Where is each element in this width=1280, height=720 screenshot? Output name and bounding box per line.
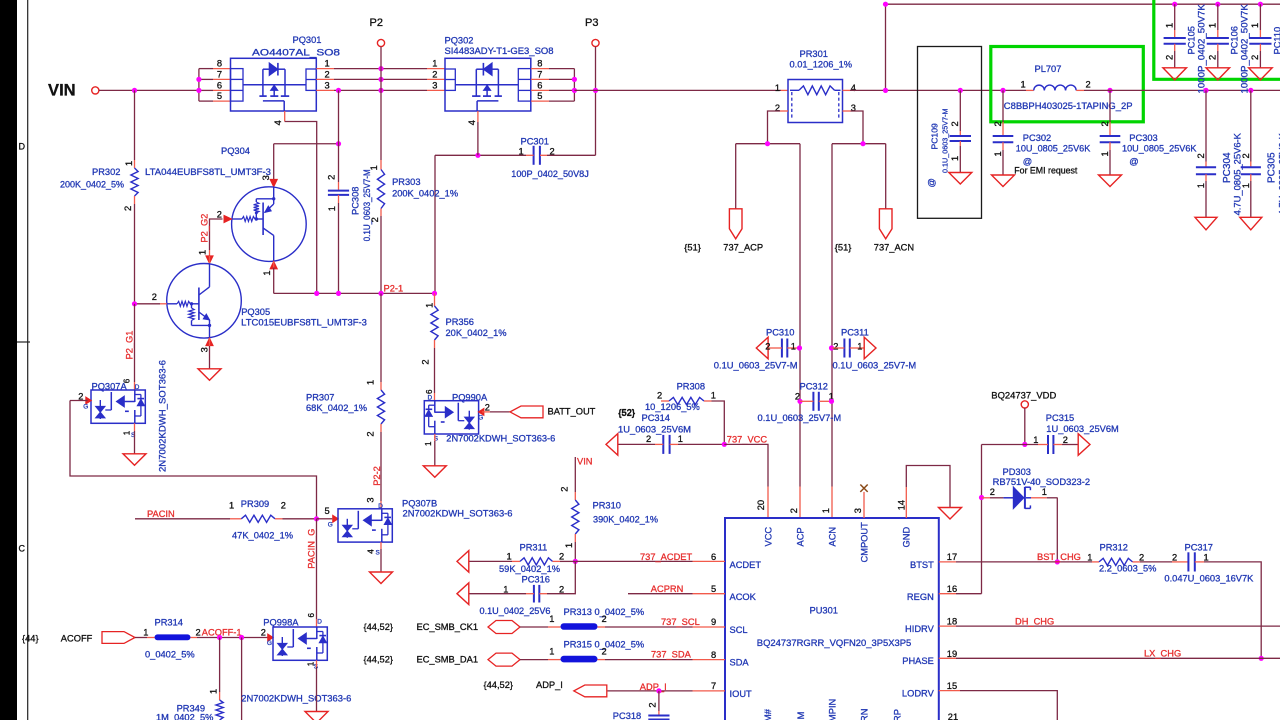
pin number PC105.1 <box>1165 23 1175 28</box>
svg-text:14: 14 <box>896 500 906 510</box>
svg-text:P2-1: P2-1 <box>384 283 404 293</box>
svg-text:2: 2 <box>990 487 995 497</box>
svg-text:1: 1 <box>424 441 433 446</box>
pin number PR313.2 <box>602 614 607 624</box>
capacitor PC317 value <box>1164 574 1254 584</box>
pin name HIDRV <box>905 624 935 634</box>
zone label C <box>19 544 26 554</box>
wire PC302 bottom <box>1002 142 1004 175</box>
svg-text:1: 1 <box>564 543 574 548</box>
wire PR307 bottom P2-2 <box>380 424 382 509</box>
pin label PQ307A.D <box>135 384 140 391</box>
svg-text:10_1206_5%: 10_1206_5% <box>645 402 700 412</box>
svg-text:IM: IM <box>796 712 806 720</box>
junction P2 row3 <box>378 88 383 93</box>
wire ACOFF <box>135 637 155 639</box>
svg-text:1: 1 <box>1021 79 1026 89</box>
wire PACIN_G down <box>316 519 318 627</box>
capacitor PC105 value <box>1197 3 1207 93</box>
junction ACP bracket <box>765 141 770 146</box>
wire P2-1 row <box>274 292 435 294</box>
svg-text:G: G <box>328 521 333 528</box>
pin name bottom MPIN <box>828 699 838 720</box>
transistor PQ305 label <box>241 307 270 317</box>
svg-text:2: 2 <box>559 585 564 595</box>
svg-text:ACDET: ACDET <box>730 560 762 570</box>
pin number PC308.2 <box>327 175 337 180</box>
wire REGN riser <box>956 445 982 594</box>
pin number PQ301.5 <box>217 91 222 101</box>
pin number PU301.8 <box>711 650 716 660</box>
svg-text:BQ24737_VDD: BQ24737_VDD <box>991 390 1056 400</box>
pin number PC314.2 <box>646 434 651 444</box>
svg-text:19: 19 <box>947 649 957 659</box>
resistor PR301 label <box>800 49 828 59</box>
svg-text:0.047U_0603_16V7K: 0.047U_0603_16V7K <box>1164 574 1254 584</box>
pin PQ304.3 stub <box>270 179 277 187</box>
svg-text:PR309: PR309 <box>241 499 269 509</box>
svg-text:PHASE: PHASE <box>902 656 934 666</box>
pin number PU301.2 <box>789 508 799 513</box>
svg-text:1: 1 <box>549 614 554 624</box>
pin number PQ990A.1 <box>424 441 433 446</box>
resistor PR312 label <box>1100 542 1128 552</box>
transistor PQ990A (2N7002KDWH) <box>424 401 478 434</box>
capacitor PC312 <box>813 392 818 411</box>
wire PC105 column <box>1174 4 1176 38</box>
junction ADP_I <box>656 688 661 693</box>
pin number PR356.1 <box>425 303 435 308</box>
resistor PR313 (0 ohm) <box>561 623 598 630</box>
capacitor PC301 label <box>521 136 549 146</box>
pin number PD303.1 <box>1042 487 1047 497</box>
svg-text:HIDRV: HIDRV <box>905 624 935 634</box>
svg-text:2: 2 <box>647 702 657 707</box>
svg-text:DH_CHG: DH_CHG <box>1015 617 1054 627</box>
pin number PU301.5 <box>711 584 716 594</box>
resistor PR312 value <box>1099 563 1156 573</box>
svg-text:7: 7 <box>711 681 716 691</box>
svg-text:LX_CHG: LX_CHG <box>1144 648 1181 658</box>
net label 737_ACN <box>874 242 914 252</box>
svg-text:17: 17 <box>947 552 957 562</box>
svg-text:6: 6 <box>123 378 132 383</box>
pin PQ998A gate arrow <box>268 634 274 641</box>
port EC_SMB_DA1 ref <box>364 654 393 664</box>
junction PC304 top <box>1203 88 1208 93</box>
pin number PR307.1 <box>366 380 376 385</box>
pin number PR315.1 <box>549 647 554 657</box>
svg-text:{51}: {51} <box>835 242 852 252</box>
wire PC315 row <box>982 444 1078 446</box>
capacitor PC301 <box>534 146 540 165</box>
svg-text:7: 7 <box>537 69 542 79</box>
pin number PL707.1 <box>1021 79 1026 89</box>
svg-text:PC310: PC310 <box>766 327 794 337</box>
svg-text:PR314: PR314 <box>155 617 183 627</box>
svg-text:1: 1 <box>425 303 435 308</box>
svg-text:1: 1 <box>229 501 234 511</box>
svg-text:2: 2 <box>217 209 222 219</box>
wire PC301 row <box>435 154 596 156</box>
transistor PQ301 (AO4407AL_SO8) <box>231 58 317 111</box>
pin number PU301.15 <box>947 681 957 691</box>
port ADP_I ref <box>484 680 513 690</box>
net label 737_VCC <box>727 434 768 444</box>
capacitor PC314 label <box>642 413 670 423</box>
resistor PR301 (0.01 1206) <box>788 80 843 123</box>
wire P2 vertical <box>380 47 382 170</box>
pin number PC106.2 <box>1208 55 1218 60</box>
wire ACN pentagon drop <box>885 144 887 209</box>
svg-text:2: 2 <box>152 292 157 302</box>
svg-text:P3: P3 <box>585 17 598 29</box>
wire PC316 row <box>470 561 576 593</box>
ground PC303 <box>1099 175 1122 187</box>
capacitor PC109 <box>950 136 971 141</box>
pin name bottom RN <box>860 709 870 720</box>
pin number PR303.1 <box>369 165 379 170</box>
svg-text:LTC015EUBFS8TL_UMT3F-3: LTC015EUBFS8TL_UMT3F-3 <box>241 317 367 327</box>
wire drain row 3 <box>316 89 445 91</box>
svg-text:6: 6 <box>307 613 316 618</box>
svg-text:1: 1 <box>1087 552 1092 562</box>
pin number PR312.2 <box>1139 552 1144 562</box>
svg-text:1: 1 <box>197 250 207 255</box>
svg-text:1000P_0402_50V7K: 1000P_0402_50V7K <box>1197 3 1207 93</box>
pin number PC317.2 <box>1172 552 1177 562</box>
pin number PC312.2 <box>795 391 800 401</box>
pin ACDET stub <box>693 560 726 562</box>
svg-text:MPIN: MPIN <box>828 699 838 720</box>
svg-text:2: 2 <box>281 501 286 511</box>
pin number PQ990A.6 <box>425 389 434 394</box>
pin number PC312.1 <box>829 391 834 401</box>
ground PC304 <box>1195 217 1217 230</box>
pin number PC109.1 <box>950 156 960 161</box>
svg-text:PC303: PC303 <box>1129 133 1157 143</box>
junction top rail corner <box>883 2 888 7</box>
wire ACP pentagon drop <box>735 144 737 209</box>
transistor PQ307A value <box>158 360 168 472</box>
pin name ACN <box>828 527 838 547</box>
pin number PC110.1 <box>1250 23 1260 28</box>
svg-text:1M_0402_5%: 1M_0402_5% <box>156 713 213 720</box>
pin PR301.2 wire <box>768 111 789 144</box>
svg-text:16: 16 <box>947 584 957 594</box>
pin number PQ301.3 <box>325 80 330 90</box>
transistor PQ304 value <box>145 167 271 177</box>
capacitor PC314 value <box>618 424 691 434</box>
wire VDD drop <box>1024 408 1026 444</box>
svg-text:PC109: PC109 <box>930 123 940 149</box>
net label ACOFF-1 <box>202 628 242 638</box>
pin number PC109.2 <box>950 121 960 126</box>
page border left bar <box>0 0 30 720</box>
svg-text:8: 8 <box>217 59 222 69</box>
junction P3 main row <box>593 88 598 93</box>
capacitor PC105 label <box>1187 26 1197 54</box>
svg-text:3: 3 <box>199 347 209 352</box>
svg-text:PR356: PR356 <box>446 317 474 327</box>
svg-text:2: 2 <box>602 614 607 624</box>
svg-text:2: 2 <box>602 647 607 657</box>
svg-text:2: 2 <box>196 627 201 637</box>
ground PC302 <box>992 175 1015 187</box>
pin number PR310.2 <box>559 487 569 492</box>
pin PHASE stub <box>939 657 956 659</box>
pin REGN stub <box>939 593 956 595</box>
svg-text:2: 2 <box>420 359 430 364</box>
svg-text:2: 2 <box>1086 79 1091 89</box>
svg-text:2N7002KDWH_SOT363-6: 2N7002KDWH_SOT363-6 <box>403 509 513 519</box>
svg-text:737_ACDET: 737_ACDET <box>640 552 693 562</box>
resistor PR309 value <box>232 530 293 540</box>
pin name bottom RP <box>892 709 902 720</box>
wire PQ990A gate <box>482 411 510 413</box>
junction ACN bracket <box>860 141 865 146</box>
svg-text:CMPOUT: CMPOUT <box>860 522 870 563</box>
capacitor PC316 <box>534 585 539 603</box>
pin number PQ305.2 <box>152 292 157 302</box>
pin number PU301.6 <box>711 552 716 562</box>
svg-text:4: 4 <box>366 549 375 554</box>
wire P3 vertical <box>595 47 597 156</box>
svg-text:1: 1 <box>143 627 148 637</box>
net label 737_SCL <box>661 617 700 627</box>
diode PD303 label <box>1003 467 1031 477</box>
svg-text:VIN: VIN <box>48 80 76 99</box>
transistor PQ307B label <box>402 498 437 508</box>
pin name ACOK <box>730 592 757 602</box>
wire PC110 column <box>1259 4 1261 38</box>
svg-text:0.1U_0402_25V6: 0.1U_0402_25V6 <box>480 606 551 616</box>
net label VIN2 <box>577 456 593 466</box>
svg-text:1: 1 <box>549 647 554 657</box>
junction bracket2 pin6 <box>572 88 577 93</box>
pin number PQ307A.6 <box>123 378 132 383</box>
junction ACDET <box>573 559 578 564</box>
capacitor PC315 <box>1048 435 1053 454</box>
svg-text:1: 1 <box>327 206 337 211</box>
pin number PC302.2 <box>993 121 1003 126</box>
pin number PQ998A.1 <box>306 661 315 666</box>
svg-text:1U_0603_25V6M: 1U_0603_25V6M <box>618 424 691 434</box>
port EC_SMB_CK1 <box>488 621 520 634</box>
transistor PQ301 value <box>252 48 340 58</box>
svg-text:PC305: PC305 <box>1267 152 1278 183</box>
net label ADP_I red <box>640 682 667 692</box>
pin number PR301.3 <box>851 103 856 113</box>
capacitor PC106 <box>1207 38 1229 44</box>
wire PR309 out <box>275 518 317 520</box>
pin HIDRV stub <box>939 625 956 627</box>
svg-text:0.1U_0603_25V7-M: 0.1U_0603_25V7-M <box>758 413 842 423</box>
pin number PC304.1 <box>1196 183 1206 188</box>
svg-text:4: 4 <box>273 120 283 125</box>
svg-text:1: 1 <box>711 391 716 401</box>
capacitor PC310 <box>782 339 787 358</box>
wire ACOFF-1 drop <box>241 638 243 720</box>
pin number PQ305.1 <box>197 250 207 255</box>
pin PQ304.1 stub <box>270 261 277 269</box>
svg-text:1: 1 <box>503 585 508 595</box>
svg-text:RN: RN <box>860 709 870 720</box>
resistor PR302 value <box>60 179 124 189</box>
svg-text:1: 1 <box>262 270 272 275</box>
svg-text:1: 1 <box>325 59 330 69</box>
capacitor PC303 label <box>1129 133 1157 143</box>
svg-text:PD303: PD303 <box>1003 467 1031 477</box>
capacitor PC105 <box>1164 38 1186 44</box>
svg-text:2: 2 <box>950 121 960 126</box>
svg-text:@: @ <box>1129 156 1138 166</box>
wire PC317 to LX <box>1195 562 1261 658</box>
svg-text:2: 2 <box>789 508 799 513</box>
pin number PC303.2 <box>1100 121 1110 126</box>
transistor PQ307A label <box>92 382 128 392</box>
capacitor PC318 label <box>613 711 641 720</box>
wire PQ307A source <box>134 423 136 454</box>
svg-text:1: 1 <box>993 151 1003 156</box>
svg-text:For EMI request: For EMI request <box>1014 166 1078 176</box>
pin label PQ307A.S <box>131 432 135 439</box>
resistor PR312 <box>1092 558 1140 565</box>
svg-text:737_ACN: 737_ACN <box>874 242 914 252</box>
pin number PU301.1 <box>821 508 831 513</box>
svg-text:2N7002KDWH_SOT363-6: 2N7002KDWH_SOT363-6 <box>241 693 351 703</box>
wire PC310 <box>769 347 800 349</box>
resistor PR308 <box>661 397 712 404</box>
svg-text:G: G <box>478 414 483 421</box>
svg-text:2: 2 <box>765 342 770 352</box>
wire after PL707 <box>1084 89 1280 91</box>
svg-text:10U_0805_25V6K: 10U_0805_25V6K <box>1122 143 1197 153</box>
pin number PR303.2 <box>370 217 380 222</box>
pin number PR302.2 <box>123 206 133 211</box>
ground PC106 <box>1206 68 1230 80</box>
resistor PR308 value <box>645 402 700 412</box>
pin number PC314.1 <box>678 434 683 444</box>
svg-text:2: 2 <box>1250 55 1260 60</box>
net label P2_G1 <box>124 331 134 360</box>
capacitor PC312 value <box>758 413 842 423</box>
net label BST_CHG <box>1037 552 1081 562</box>
svg-text:PC302: PC302 <box>1023 133 1051 143</box>
pin label PQ307B.S <box>376 549 380 556</box>
wire GND pin <box>906 466 950 519</box>
pin number PR308.1 <box>711 391 716 401</box>
svg-text:10U_0805_25V6K: 10U_0805_25V6K <box>1016 143 1091 153</box>
pin PQ990A gate arrow <box>478 408 484 415</box>
wire PC305 bottom <box>1250 174 1252 217</box>
capacitor PC312 label <box>800 382 828 392</box>
pin number PD303.2 <box>990 487 995 497</box>
junction PC311.2 <box>829 345 834 350</box>
no-connect CMPOUT <box>860 485 867 492</box>
wire ACP bracket <box>736 143 800 145</box>
wire PD303 to BTST <box>1056 498 1058 562</box>
resistor PR303 <box>377 170 384 209</box>
net label P2-1 <box>384 283 404 293</box>
port EC_SMB_DA1 <box>488 653 520 666</box>
node P3 terminal <box>592 39 599 46</box>
port 737_ACN <box>879 209 892 239</box>
svg-text:PU301: PU301 <box>810 605 838 615</box>
port PR311 arrow <box>457 551 469 573</box>
port PC314 ref <box>619 408 636 418</box>
svg-text:P2_G2: P2_G2 <box>199 214 209 243</box>
svg-text:1: 1 <box>1042 487 1047 497</box>
wire PC318 column <box>658 691 660 716</box>
pin number PC305.2 <box>1241 153 1251 158</box>
svg-text:2: 2 <box>1241 153 1251 158</box>
pin label PQ998A.G <box>267 640 272 647</box>
svg-text:1: 1 <box>507 552 512 562</box>
svg-text:PR301: PR301 <box>800 49 828 59</box>
svg-text:{44,52}: {44,52} <box>364 654 393 664</box>
pin number PQ302.1 <box>432 59 437 69</box>
capacitor PC308 label <box>351 187 361 215</box>
junction BTST <box>1055 559 1060 564</box>
resistor PR315 label <box>564 639 645 649</box>
svg-text:2: 2 <box>1196 153 1206 158</box>
svg-text:0.1U_0603_25V7-M: 0.1U_0603_25V7-M <box>940 109 949 174</box>
transistor PQ998A value <box>241 693 351 703</box>
pin number PQ307B.4 <box>366 549 375 554</box>
capacitor PC110 label <box>1272 27 1280 55</box>
port ACOFF ref <box>22 633 39 643</box>
node P3 label <box>585 17 598 29</box>
svg-text:M#: M# <box>763 708 773 720</box>
zone label D <box>19 142 26 152</box>
capacitor PC318 <box>648 716 669 720</box>
capacitor PC316 value <box>480 606 551 616</box>
svg-text:1: 1 <box>209 689 219 694</box>
svg-text:5: 5 <box>711 584 716 594</box>
svg-text:2: 2 <box>327 175 337 180</box>
wire PC314 <box>619 443 725 445</box>
net label PACIN <box>147 509 175 519</box>
svg-text:PC311: PC311 <box>841 327 869 337</box>
pin number PQ307A.1 <box>122 430 131 435</box>
junction P2-1 b <box>336 291 341 296</box>
capacitor PC109 label <box>930 123 940 149</box>
wire PQ990A source <box>434 434 436 466</box>
port PC311 arrow <box>864 337 876 359</box>
junction PL707.1 <box>1000 88 1005 93</box>
svg-text:737_SDA: 737_SDA <box>651 649 692 659</box>
capacitor PC308 value <box>362 169 372 241</box>
wire PC308 bottom <box>338 195 340 294</box>
wire PR312-PC317 <box>1140 561 1188 563</box>
junction 737_VCC <box>722 442 727 447</box>
pin number PR301.1 <box>775 83 780 93</box>
transistor PQ998A label <box>263 617 299 627</box>
port BATT_OUT ref <box>618 408 635 418</box>
port PC314 arrow <box>606 434 618 456</box>
junction PC109 <box>958 88 963 93</box>
svg-text:5: 5 <box>217 91 222 101</box>
pin name GND <box>901 527 911 548</box>
pin number PU301.14 <box>896 500 906 510</box>
capacitor PC304 <box>1196 167 1216 174</box>
svg-text:1: 1 <box>857 342 862 352</box>
port ADP_I <box>574 685 607 697</box>
wire PC106 bottom <box>1217 44 1219 68</box>
junction top rail main <box>883 88 888 93</box>
net label ACPRN <box>651 584 684 594</box>
